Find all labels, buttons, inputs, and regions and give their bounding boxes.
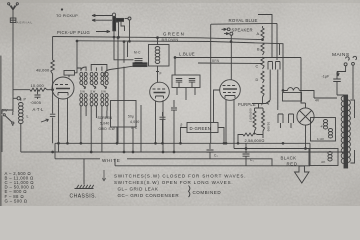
- coil T1 top leads: [77, 67, 86, 71]
- wire BROWN bus: [77, 41, 284, 92]
- label 4V top: [315, 99, 320, 103]
- scan edge left: [0, 56, 1, 206]
- svg-text:4V: 4V: [315, 99, 320, 103]
- svg-text:2,58,000Ω: 2,58,000Ω: [245, 138, 265, 143]
- svg-text:10,000: 10,000: [31, 83, 45, 88]
- note brace: [189, 186, 190, 198]
- wire bus4: [115, 165, 310, 167]
- wire L.BLUE line: [175, 57, 301, 59]
- svg-text:GRID S.W: GRID S.W: [99, 127, 115, 131]
- svg-text:A.: A.: [257, 32, 261, 36]
- svg-text:WHITE: WHITE: [102, 158, 121, 163]
- capacitor C2: [207, 143, 219, 159]
- note line 4: [118, 193, 180, 198]
- wire ROYAL BLUE bus: [211, 22, 277, 25]
- label GREEN: [163, 32, 185, 37]
- svg-text:1,000,000: 1,000,000: [249, 108, 253, 122]
- mains lead left: [337, 57, 349, 76]
- svg-text:-1µF: -1µF: [322, 74, 330, 78]
- wire dgreen left: [181, 128, 188, 144]
- arrow to plug: [96, 30, 110, 32]
- transformer right leads: [350, 95, 354, 163]
- trimmer box: [172, 75, 200, 88]
- wire 48000 down: [52, 74, 54, 143]
- tap C label: [256, 65, 259, 69]
- svg-text:4V: 4V: [321, 125, 326, 129]
- mains lead right: [352, 56, 357, 95]
- wire choke to V2: [156, 66, 159, 82]
- svg-text:A·T·L: A·T·L: [33, 107, 45, 112]
- choke box: [149, 45, 170, 67]
- tube V2: [150, 82, 170, 152]
- mains transformer: [341, 95, 350, 168]
- earth arrow: [295, 166, 310, 183]
- tap A label: [257, 32, 261, 36]
- coil T1 windings: [80, 72, 87, 114]
- tap B label: [257, 48, 260, 52]
- coil T3 top lead: [101, 67, 103, 71]
- grid bias arrow: [41, 119, 49, 122]
- wire right verts: [266, 44, 280, 110]
- svg-text:4,000: 4,000: [130, 120, 140, 124]
- svg-text:GREEN: GREEN: [163, 32, 185, 37]
- svg-text:C: C: [256, 65, 259, 69]
- wire bus ends: [55, 143, 310, 166]
- switch SW1: [2, 108, 14, 152]
- svg-text:SWITCHES(S.W) CLOSED FOR SHORT: SWITCHES(S.W) CLOSED FOR SHORT WAVES.: [114, 174, 246, 179]
- note line 2: [114, 180, 233, 185]
- divider chain: [261, 26, 264, 104]
- wire gc arc: [104, 66, 133, 77]
- label MAINS: [332, 52, 350, 58]
- label gl gc: [128, 115, 140, 131]
- svg-text:PURPLE: PURPLE: [238, 102, 256, 107]
- svg-text:PICK-UP PLUG: PICK-UP PLUG: [57, 30, 90, 35]
- svg-text:50µ: 50µ: [179, 122, 183, 128]
- pickup plug connector: [112, 13, 131, 31]
- label PURPLE F: [238, 102, 270, 108]
- smoothing choke: [283, 88, 315, 101]
- wire V3 grid: [214, 90, 220, 123]
- svg-text:50µ: 50µ: [128, 115, 134, 119]
- svg-text:BROWN: BROWN: [162, 37, 179, 42]
- box D.GREEN: [187, 123, 218, 133]
- svg-text:G·C: G·C: [131, 126, 138, 130]
- svg-text:BRN: BRN: [212, 59, 220, 63]
- label ROYAL BLUE: [229, 18, 258, 23]
- wire trimbox drops: [177, 88, 195, 101]
- svg-text:GL– GRID LEAK: GL– GRID LEAK: [118, 187, 159, 192]
- label TO PICKUP: [56, 9, 78, 18]
- svg-text:COMBINED: COMBINED: [193, 190, 222, 195]
- svg-text:TO PICKUP: TO PICKUP: [56, 14, 78, 18]
- wire V3 anode: [230, 35, 232, 79]
- svg-text:·0005: ·0005: [30, 100, 42, 105]
- wire vert x127.5: [127, 42, 129, 57]
- tube V1 grid cap: [64, 41, 77, 77]
- svg-text:C₅: C₅: [250, 158, 255, 162]
- wire coil L bottom: [20, 133, 22, 152]
- wire output box left: [210, 24, 212, 143]
- coil T2 windings: [90, 72, 97, 114]
- resistor 50000: [262, 108, 271, 132]
- wire royal drop: [276, 23, 278, 60]
- label RED: [287, 161, 298, 166]
- legend resistor values: [5, 171, 35, 203]
- svg-text:4V: 4V: [321, 160, 326, 164]
- label brown2: [212, 59, 220, 63]
- svg-text:P: P: [24, 97, 27, 101]
- wire bus3a: [55, 158, 100, 160]
- capacitor series x52: [50, 114, 55, 116]
- svg-text:F: F: [261, 102, 264, 107]
- svg-text:50,000: 50,000: [267, 122, 271, 132]
- wire res258 down: [254, 131, 256, 135]
- svg-text:L: L: [27, 115, 29, 119]
- label screen grid: [98, 116, 115, 131]
- wire box drops: [117, 105, 141, 152]
- capacitor .0005 ATL: [30, 90, 44, 112]
- wire bus 148: [234, 148, 310, 150]
- label 50u vert: [179, 122, 183, 128]
- svg-text:S.W: S.W: [90, 89, 96, 93]
- coil T3 bottom wires: [102, 111, 107, 153]
- svg-text:SCREEN: SCREEN: [98, 116, 113, 120]
- note line 1: [114, 174, 246, 179]
- svg-text:D·GREEN: D·GREEN: [190, 126, 212, 131]
- label BROWN: [162, 37, 179, 42]
- wire GREEN bus: [53, 37, 264, 41]
- svg-text:CHASSIS.: CHASSIS.: [70, 194, 97, 200]
- wire chassis drop: [83, 159, 85, 185]
- svg-text:M·C: M·C: [134, 51, 141, 55]
- svg-text:1:4V: 1:4V: [317, 137, 325, 141]
- wire topright box: [258, 15, 272, 58]
- wire brown2 line: [198, 62, 263, 65]
- small arrow mark: [102, 170, 105, 181]
- label SPEAKER: [232, 28, 253, 33]
- grid condenser GC: [133, 51, 147, 67]
- svg-text:B: B: [257, 48, 260, 52]
- chassis symbol: [75, 185, 94, 189]
- screen box: [111, 101, 137, 128]
- wire dgreen right: [218, 128, 224, 144]
- terminal P: [13, 97, 27, 102]
- svg-text:RED: RED: [287, 161, 298, 166]
- wire vert x124: [123, 41, 125, 152]
- capacitor C8: [243, 143, 255, 166]
- trimmer 2: [189, 79, 196, 88]
- coil T1 bottom wires: [81, 111, 86, 144]
- resistor 1meg: [249, 108, 257, 131]
- resistor 48000: [36, 37, 54, 75]
- svg-text:S.W: S.W: [80, 89, 86, 93]
- svg-text:L.BLUE: L.BLUE: [179, 52, 195, 57]
- wire plug down-left: [114, 31, 134, 60]
- speaker terminal 1: [222, 28, 231, 31]
- resistor 258000: [238, 131, 265, 143]
- label F tap: [160, 72, 162, 76]
- capacitor 1uF: [322, 72, 346, 96]
- wire plug down-right: [113, 31, 119, 38]
- svg-text:SW: SW: [2, 109, 9, 113]
- svg-text:D: D: [256, 78, 259, 82]
- wire vert x118: [117, 37, 119, 144]
- capacitor bypass1: [160, 112, 166, 143]
- power box lower: [309, 149, 338, 166]
- note line 3: [118, 187, 159, 192]
- wire rect top: [301, 58, 344, 104]
- trimmer 1: [176, 79, 183, 88]
- aerial label scribble: [17, 21, 33, 25]
- label COMBINED: [193, 190, 222, 195]
- antenna aerial: [8, 3, 19, 23]
- choke coil: [76, 37, 176, 64]
- capacitor bypass2: [171, 100, 177, 152]
- wire bus2: [21, 151, 345, 153]
- tube V1: [52, 77, 74, 152]
- label WHITE: [102, 158, 121, 163]
- svg-text:BLACK: BLACK: [281, 156, 297, 161]
- rectifier V4: [297, 103, 314, 149]
- tap D label: [256, 78, 259, 82]
- label BLACK: [281, 156, 297, 161]
- coil L aerial: [19, 98, 29, 133]
- resistor 10,000: [13, 83, 53, 92]
- wire pickup lead 1: [92, 14, 112, 16]
- wire trimmer drop: [174, 58, 176, 76]
- svg-text:A·E·R·I·A·L: A·E·R·I·A·L: [17, 21, 33, 25]
- svg-text:G – 500 Ω: G – 500 Ω: [5, 198, 28, 203]
- wire aerial down: [12, 23, 14, 109]
- svg-text:48,000: 48,000: [36, 68, 50, 73]
- wire bus3b: [127, 159, 272, 166]
- power box upper: [311, 118, 336, 142]
- wire pickup lead 2: [92, 19, 112, 21]
- label CHASSIS: [70, 194, 97, 200]
- coil T2 top leads: [91, 65, 107, 71]
- svg-text:ROYAL BLUE: ROYAL BLUE: [229, 18, 258, 23]
- svg-text:F: F: [160, 72, 162, 76]
- label L.BLUE: [179, 52, 195, 57]
- label PICK-UP PLUG: [57, 30, 90, 35]
- svg-text:C₂: C₂: [214, 154, 219, 158]
- svg-text:SWITCHES(S.W) OPEN FOR LONG WA: SWITCHES(S.W) OPEN FOR LONG WAVES.: [114, 180, 233, 185]
- svg-text:S.W: S.W: [101, 89, 107, 93]
- coil T3 windings: [101, 72, 108, 114]
- tube V3: [220, 80, 241, 149]
- wire plug tip down: [129, 20, 131, 41]
- svg-text:SPEAKER: SPEAKER: [232, 28, 253, 33]
- wire switch top link: [2, 108, 13, 114]
- speaker terminal 2: [224, 32, 233, 35]
- svg-text:5,040: 5,040: [100, 122, 110, 126]
- capacitor block lower: [278, 114, 294, 128]
- wire meg tops: [252, 104, 266, 109]
- capacitor block upper: [268, 62, 280, 101]
- coil T2 bottom wires: [91, 111, 96, 153]
- wire bus1: [55, 142, 310, 144]
- svg-text:GC– GRID CONDENSER: GC– GRID CONDENSER: [118, 193, 180, 198]
